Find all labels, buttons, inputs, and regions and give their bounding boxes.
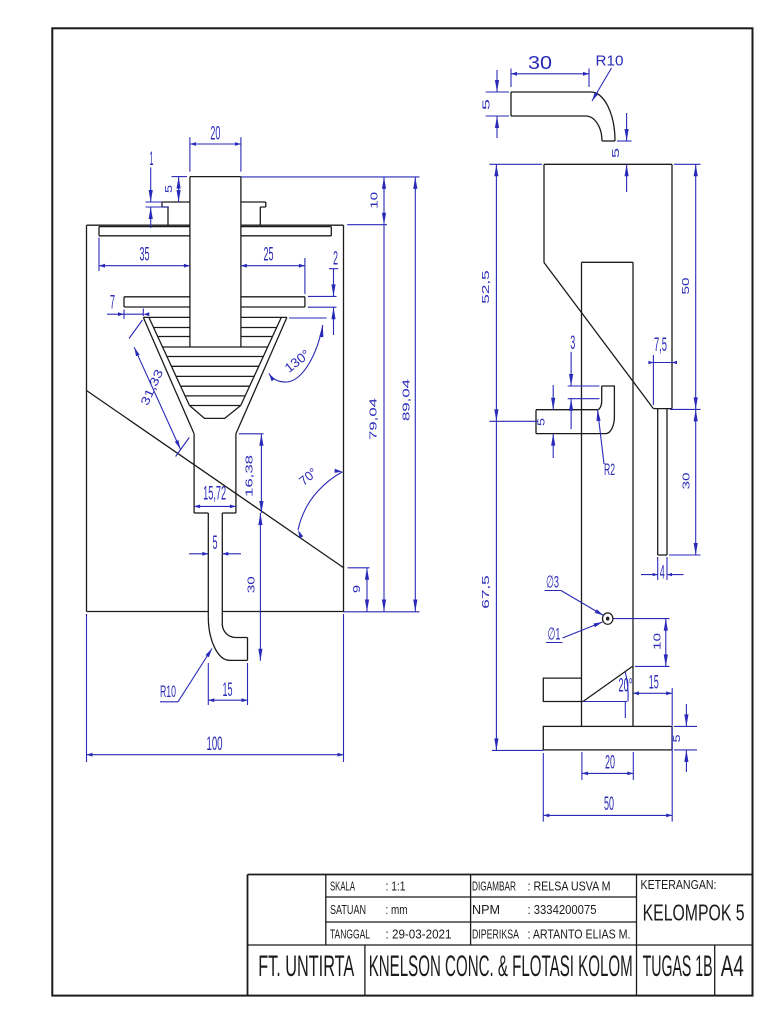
dimension 20 (channel width) bbox=[581, 752, 583, 780]
svg-text:SKALA: SKALA bbox=[330, 878, 355, 893]
dimension 50 (right height) bbox=[674, 163, 701, 165]
left view: outlet mouth bbox=[230, 638, 248, 661]
dimension 5 (tube width) bbox=[189, 553, 208, 555]
svg-text:50: 50 bbox=[604, 794, 614, 815]
dimension 20deg (chamfer angle) bbox=[583, 701, 627, 703]
svg-text:R10: R10 bbox=[596, 53, 624, 70]
dimension 16,38 (neck length) bbox=[239, 433, 264, 435]
svg-text:7: 7 bbox=[110, 293, 115, 314]
svg-text:A4: A4 bbox=[721, 950, 744, 983]
dimension 50 (base plate width) bbox=[542, 753, 544, 822]
svg-text:SATUAN: SATUAN bbox=[330, 902, 366, 917]
svg-text:31,33: 31,33 bbox=[138, 367, 167, 408]
dimension 130deg (cone angle) bbox=[289, 317, 327, 319]
dimension 31,33 (cone wall length) bbox=[129, 320, 143, 339]
svg-text:: 29-03-2021: : 29-03-2021 bbox=[386, 926, 452, 941]
dimension 35 (plate left) bbox=[98, 238, 100, 272]
left view: impeller disc plate bbox=[124, 296, 190, 298]
left view: cone rib at y=336.5 bbox=[158, 336, 190, 338]
dimension 70deg (diagonal angle) bbox=[298, 472, 343, 530]
right view: top outlet pipe hook bbox=[511, 92, 615, 141]
svg-text:9: 9 bbox=[351, 585, 363, 593]
dimension 67,5 (lower body height) bbox=[495, 421, 497, 750]
left view: discharge tube walls bbox=[207, 513, 209, 617]
dimension 9 (diagonal end offset) bbox=[348, 567, 370, 569]
left view: left shaft tab bbox=[162, 202, 190, 225]
svg-text:TUGAS 1B: TUGAS 1B bbox=[643, 950, 713, 983]
left view: cone top edge bbox=[143, 316, 190, 318]
title block outline bbox=[248, 875, 753, 996]
dimension 15 (outlet mouth) bbox=[207, 663, 209, 705]
svg-text:5: 5 bbox=[163, 185, 175, 193]
dimension 30 (hook top length) bbox=[510, 69, 512, 88]
svg-text:KETERANGAN:: KETERANGAN: bbox=[641, 877, 717, 892]
dimension 2 (disc thickness) bbox=[329, 268, 338, 270]
right view: small hole bbox=[603, 613, 613, 624]
left view: cone rib at y=395.9 bbox=[185, 395, 245, 397]
left view: outlet elbow inner curve bbox=[222, 624, 236, 638]
right view: inner channel bbox=[582, 261, 634, 263]
svg-text:79,04: 79,04 bbox=[368, 398, 380, 440]
dimension 30 (tube length) bbox=[259, 513, 261, 661]
svg-text:TANGGAL: TANGGAL bbox=[330, 926, 370, 941]
left view: cone rib at y=347.0 bbox=[163, 346, 268, 348]
svg-text:16,38: 16,38 bbox=[244, 455, 256, 497]
svg-text:∅1: ∅1 bbox=[548, 625, 561, 644]
svg-text:1: 1 bbox=[150, 149, 154, 170]
svg-text:20: 20 bbox=[605, 752, 615, 773]
svg-text:5: 5 bbox=[671, 734, 683, 742]
left view: cone rib at y=356.5 bbox=[167, 356, 263, 358]
svg-text:20: 20 bbox=[210, 124, 220, 145]
dimension 5 (hook thickness) bbox=[486, 91, 509, 93]
svg-text:25: 25 bbox=[264, 245, 274, 266]
svg-text:3: 3 bbox=[570, 333, 575, 354]
svg-text:10: 10 bbox=[651, 633, 663, 650]
dimension 52,5 (upper body height) bbox=[489, 163, 542, 165]
left view: section diagonal line bbox=[87, 391, 345, 569]
svg-text:: RELSA USVA M: : RELSA USVA M bbox=[528, 878, 611, 893]
svg-text:FT. UNTIRTA: FT. UNTIRTA bbox=[258, 950, 354, 983]
svg-text:35: 35 bbox=[140, 245, 150, 266]
right view: feed pipe hook R2 bbox=[536, 386, 614, 434]
left view: cone rib at y=366.3 bbox=[171, 365, 258, 367]
svg-text:R2: R2 bbox=[604, 460, 615, 479]
svg-text:100: 100 bbox=[207, 734, 223, 755]
left view: cone rib at y=386.2 bbox=[181, 385, 250, 387]
left view: cone rib at y=327.5 bbox=[154, 327, 190, 329]
svg-text:DIPERIKSA: DIPERIKSA bbox=[472, 926, 519, 941]
svg-text:: mm: : mm bbox=[386, 902, 408, 917]
svg-text:15: 15 bbox=[649, 672, 659, 693]
right view: support rod bbox=[657, 409, 659, 555]
svg-text:67,5: 67,5 bbox=[480, 575, 492, 609]
dimension 100 (body width) bbox=[86, 614, 88, 762]
right view: bottom base plate bbox=[543, 726, 672, 750]
left view: cone outer wall right bbox=[236, 317, 287, 433]
right view: lower tab plate bbox=[543, 678, 583, 701]
svg-text:NPM: NPM bbox=[472, 902, 500, 917]
left view: cone inner wall left bbox=[149, 317, 190, 405]
svg-text:89,04: 89,04 bbox=[401, 379, 413, 421]
left view: cone bottom trapezoid bbox=[190, 406, 241, 419]
svg-text:5: 5 bbox=[536, 418, 548, 426]
svg-text:DIGAMBAR: DIGAMBAR bbox=[472, 878, 516, 893]
svg-text:4: 4 bbox=[660, 563, 665, 584]
dimension 4 (rod width) bbox=[657, 557, 659, 580]
svg-text:52,5: 52,5 bbox=[480, 270, 492, 304]
svg-text:10: 10 bbox=[368, 192, 380, 209]
extension line at body top level bbox=[347, 224, 387, 226]
svg-text:70°: 70° bbox=[296, 465, 320, 489]
svg-text:15: 15 bbox=[223, 680, 233, 701]
svg-text:7,5: 7,5 bbox=[654, 335, 667, 356]
svg-text:130°: 130° bbox=[282, 346, 313, 375]
svg-text:5: 5 bbox=[481, 99, 493, 110]
svg-text:KNELSON CONC. & FLOTASI KOLOM: KNELSON CONC. & FLOTASI KOLOM bbox=[369, 950, 633, 983]
right view: body outline bbox=[544, 163, 672, 165]
left view: right shaft tab bbox=[241, 202, 266, 225]
dimension 5 (hook mouth to body) bbox=[617, 140, 632, 142]
dimension 10 (shaft protrusion) bbox=[383, 177, 385, 225]
dimension 89,04 (total height) bbox=[414, 177, 416, 612]
svg-text:20°: 20° bbox=[619, 676, 633, 697]
right view: chamfer edge 20deg bbox=[583, 666, 633, 701]
svg-text:5: 5 bbox=[213, 533, 218, 554]
dimension 3 (feed pipe bore) bbox=[568, 385, 600, 387]
left view: cone rib at y=405.5 bbox=[190, 405, 241, 407]
svg-text:30: 30 bbox=[681, 472, 693, 489]
left view: outlet elbow outer curve R10 bbox=[208, 617, 230, 661]
svg-text:∅3: ∅3 bbox=[546, 573, 559, 592]
left view: central shaft bbox=[190, 176, 241, 178]
left view: top cover plate bbox=[99, 226, 190, 228]
left view: vessel body outline bbox=[87, 224, 190, 226]
svg-text:15,72: 15,72 bbox=[203, 484, 226, 505]
dimension 30 (rod length) bbox=[669, 554, 701, 556]
dimension 79,04 (body height) bbox=[383, 225, 385, 612]
dimension 1 (tab step) bbox=[146, 201, 164, 203]
extension line at shaft top level bbox=[241, 176, 420, 178]
dimension 5 (tab height) bbox=[172, 176, 188, 178]
title block bottom band dividers bbox=[365, 945, 715, 995]
dimension 10 (hole to chamfer) bbox=[614, 618, 670, 620]
dimension 7,5 (top of rod ledge) bbox=[652, 355, 654, 405]
extension line at body bottom level bbox=[344, 611, 420, 613]
dimension 5 (feed tab thickness) bbox=[552, 385, 554, 410]
svg-text:: 1:1: : 1:1 bbox=[386, 878, 406, 893]
dimension 5 (base plate thickness) bbox=[674, 725, 697, 727]
svg-text:5: 5 bbox=[610, 148, 622, 158]
left view: neck step shoulders bbox=[194, 512, 208, 514]
left view: cone inner wall right bbox=[241, 317, 282, 405]
svg-text:: ARTANTO ELIAS M.: : ARTANTO ELIAS M. bbox=[528, 926, 631, 941]
title block grid lines bbox=[248, 875, 753, 946]
svg-text:50: 50 bbox=[680, 277, 692, 294]
svg-text:R10: R10 bbox=[160, 682, 176, 701]
dimension 15,72 (neck width) bbox=[194, 505, 236, 507]
dimension 15 (plate overhang) bbox=[671, 688, 673, 725]
svg-text:30: 30 bbox=[528, 53, 552, 73]
left view: cone outer wall left bbox=[143, 317, 194, 433]
svg-text:30: 30 bbox=[246, 576, 258, 593]
left view: cone rib at y=376.4 bbox=[176, 375, 254, 377]
dimension 20 (shaft width) bbox=[189, 137, 191, 171]
dimension 7 (disc to cone edge) bbox=[123, 310, 125, 320]
right view: body diagonal cut bbox=[544, 263, 653, 409]
svg-text:KELOMPOK 5: KELOMPOK 5 bbox=[643, 900, 745, 926]
svg-text:2: 2 bbox=[333, 249, 338, 270]
left view: funnel neck walls bbox=[193, 434, 195, 513]
svg-text:: 3334200075: : 3334200075 bbox=[528, 902, 597, 917]
dimension 25 (plate right) bbox=[304, 258, 306, 294]
